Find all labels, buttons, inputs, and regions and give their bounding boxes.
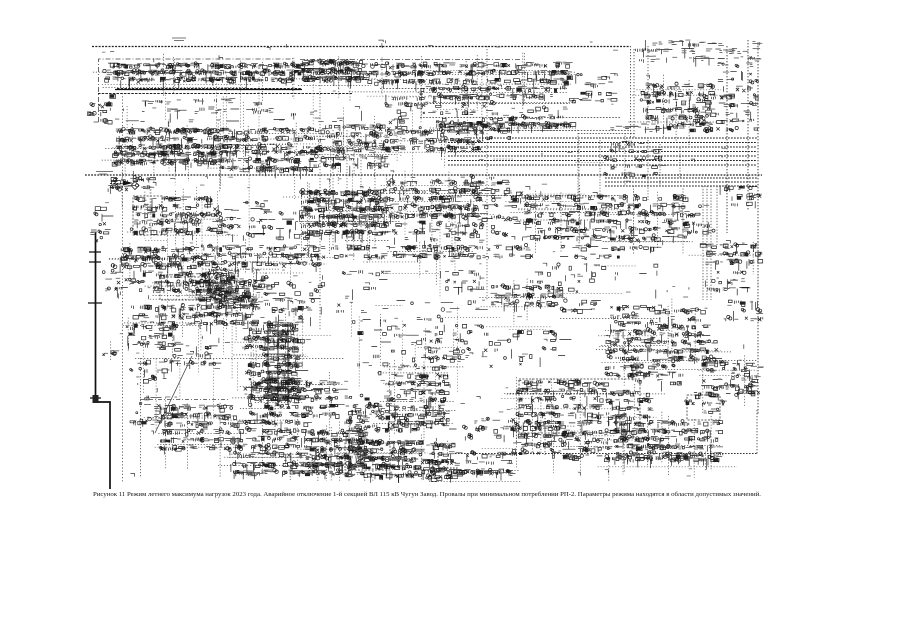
collector under bundle: [440, 134, 635, 196]
group H4: [305, 429, 371, 473]
bottom right edge: [756, 410, 758, 455]
left ladder: [98, 95, 115, 124]
row E1: [120, 246, 199, 276]
labels B1: [142, 100, 181, 111]
group D5: [262, 210, 310, 240]
row E2: [197, 244, 266, 274]
breaker taps C11: [690, 94, 738, 133]
fill I2: [461, 180, 519, 209]
vertical net x=630 (corner of top bus): [631, 46, 635, 138]
sparse fill1: [380, 300, 522, 362]
flow arrow: [123, 181, 133, 186]
jumper diagonal: [155, 356, 192, 433]
row E7: [560, 244, 617, 258]
bay group A7: [640, 82, 715, 134]
bundle risers right: [703, 186, 717, 300]
group G11: [661, 340, 722, 364]
left feeder dotted riser x=122: [122, 93, 124, 483]
group F9: [560, 299, 601, 314]
chain H5: [231, 461, 349, 479]
box РП-2: [133, 196, 162, 235]
substation block A5: [420, 62, 573, 107]
group G4: [160, 346, 221, 372]
bus terminal blob: [93, 395, 99, 403]
sparse fill2: [531, 255, 658, 298]
local ties right of chains: [300, 211, 390, 241]
row E3: [266, 245, 326, 272]
chain C3: [326, 124, 390, 150]
lower switchgear box border: [135, 358, 345, 478]
row E4: [331, 245, 395, 260]
main 10kV busbar (solid): [115, 89, 302, 91]
bay group A10: [497, 106, 569, 133]
group G17: [631, 364, 683, 392]
left solid bus (110 kV line): [96, 232, 111, 489]
top row A3b: [302, 59, 363, 88]
riser taps C10: [604, 141, 667, 178]
ladder bus rungs: [266, 325, 290, 400]
row E6: [475, 244, 534, 259]
bus taps: [88, 252, 102, 398]
bay row A2: [238, 62, 308, 89]
chain C1: [116, 127, 241, 157]
group F1: [105, 269, 161, 297]
right riser x=727: [726, 46, 728, 233]
ladder bus verticals: [268, 322, 288, 405]
bay group A3: [304, 60, 370, 83]
dense H7: [419, 442, 462, 483]
riser x=545 low: [544, 415, 546, 455]
labels M1: [101, 110, 362, 127]
arrow zone D1: [108, 176, 155, 194]
group D12: [720, 185, 761, 208]
left col I4: [102, 264, 121, 291]
row H16: [430, 469, 515, 480]
group D4: [219, 201, 271, 242]
group F6: [126, 323, 183, 349]
chain C2: [235, 127, 329, 157]
fill I1: [346, 394, 400, 433]
group F10: [610, 305, 660, 343]
bus under top row: [98, 89, 352, 94]
top boundary dotted bus: [92, 46, 630, 48]
knot F3: [195, 279, 264, 334]
group F7: [440, 271, 484, 295]
group G9: [515, 379, 611, 434]
riser symbols: [716, 62, 759, 131]
group H10: [559, 429, 620, 461]
row E10: [337, 270, 391, 326]
box H6: [345, 443, 390, 470]
main horizontal bus y=173: [85, 174, 762, 176]
group D11: [684, 205, 715, 236]
group H13: [605, 390, 654, 426]
group H3: [234, 420, 312, 464]
chain G15: [358, 330, 388, 375]
group H18: [391, 411, 457, 433]
vertical feeder net x=579: [578, 140, 580, 250]
group F2: [155, 271, 235, 295]
group G14: [737, 365, 764, 396]
chain A5b: [437, 121, 576, 134]
riser x=648: [647, 46, 649, 130]
group G16: [249, 380, 298, 423]
row E5: [393, 245, 477, 263]
right-low tie lines: [560, 319, 757, 361]
group H14: [685, 392, 727, 413]
title label (tiny): [172, 38, 186, 41]
left col D13: [90, 207, 113, 242]
group G13: [700, 360, 758, 399]
sparse fill5: [345, 396, 401, 424]
dash-dot frame top-left: [93, 59, 521, 122]
bay group A4: [360, 62, 424, 91]
group G10: [605, 340, 668, 378]
labels C9: [610, 126, 669, 131]
bay group A6: [567, 73, 617, 103]
group F5: [132, 304, 200, 334]
sparse fill6: [484, 330, 571, 367]
box right low: [687, 395, 720, 420]
bay group A9: [385, 93, 498, 139]
group D8: [443, 215, 520, 238]
group H9: [511, 424, 567, 459]
chain C8: [456, 128, 511, 143]
box zone D2: [130, 196, 172, 234]
group G6: [386, 364, 450, 433]
label zone A8: [636, 40, 763, 67]
interconnect wires: [127, 61, 649, 449]
diamond node: [131, 182, 139, 190]
group G3: [289, 380, 348, 418]
feeder riser group x=320..375: [333, 130, 375, 250]
chain C4: [112, 150, 222, 173]
labels B3: [246, 102, 273, 112]
vertical feeder net x=487: [486, 46, 488, 300]
group H1: [130, 396, 177, 427]
sparse fill4: [457, 174, 523, 202]
bottom collector dotted: [438, 453, 757, 468]
knot G2: [243, 327, 305, 351]
group G5: [130, 359, 181, 383]
chain C7: [385, 130, 481, 157]
row H17: [604, 454, 722, 469]
dense D6: [300, 188, 392, 243]
row E8: [618, 245, 662, 253]
group D14: [391, 205, 485, 249]
vertical feeder net x=320: [319, 58, 321, 330]
group H12: [665, 420, 723, 466]
right edge riser x=758: [757, 46, 759, 415]
svg-text:Рисунок 11 Режим летнего макси: Рисунок 11 Режим летнего максимума нагру…: [93, 491, 761, 498]
group D10: [609, 194, 690, 243]
group H15: [463, 417, 519, 442]
group F12: [705, 271, 750, 296]
dense H11: [614, 420, 672, 464]
cluster interconnect mesh: [93, 53, 760, 482]
labels B2: [197, 98, 239, 111]
tie-line bundle (parallel circuits): [448, 138, 757, 186]
group F13: [727, 300, 763, 321]
section label line: [140, 399, 230, 401]
group F11: [655, 308, 711, 344]
chain G1: [263, 321, 304, 402]
right riser x=748: [747, 40, 749, 210]
group F8: [491, 284, 563, 312]
group D9: [522, 195, 618, 245]
dense H6: [345, 439, 425, 483]
left tap marks: [103, 351, 120, 356]
bay row A1: [103, 62, 238, 91]
chain C6: [314, 146, 389, 176]
group F4: [204, 267, 276, 314]
box load center: [519, 379, 640, 433]
bundle corner connectors: [578, 133, 680, 200]
group D7: [385, 179, 488, 224]
scatter noise: [95, 40, 751, 477]
group D3: [165, 196, 226, 240]
group F4b: [271, 281, 325, 326]
knot G2b: [244, 361, 309, 404]
group H2: [159, 404, 241, 454]
feeder tie lines upper-middle: [380, 89, 630, 131]
fill I3: [349, 408, 388, 430]
group G7: [421, 331, 472, 360]
bus label text: [96, 172, 113, 175]
chain C5: [220, 149, 322, 179]
left edge blk: [87, 103, 108, 124]
group H8: [455, 451, 517, 475]
knot E9: [700, 243, 763, 271]
box T-group: [160, 277, 230, 300]
